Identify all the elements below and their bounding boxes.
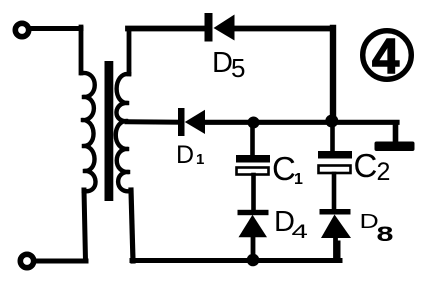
- wire secondary bottom: [131, 190, 133, 261]
- node junction dot on bottom rail: [247, 254, 260, 267]
- svg-text:C: C: [354, 147, 378, 184]
- svg-text:4: 4: [372, 30, 399, 84]
- svg-text:D: D: [176, 141, 194, 169]
- terminal J2 (bottom-left input): [20, 254, 33, 267]
- figure number circle 4: [363, 31, 412, 80]
- capacitor C2 top plate: [318, 151, 352, 159]
- wire middle rail right of D1: [205, 120, 397, 125]
- node junction dot at C2 tap: [325, 115, 338, 128]
- wire primary bottom: [84, 190, 86, 261]
- capacitor C1 bottom plate: [237, 168, 269, 175]
- wire right vertical from top rail: [330, 28, 336, 121]
- svg-text:2: 2: [377, 158, 391, 186]
- wire top rail right of D5: [233, 26, 333, 32]
- diode D4: [239, 215, 268, 238]
- diode D4 cathode bar: [238, 210, 269, 215]
- ground symbol: [375, 142, 415, 152]
- wire down to primary winding: [79, 27, 84, 73]
- wire D4 bottom lead: [251, 237, 256, 260]
- diode D1: [185, 110, 205, 134]
- terminal J1 (top-left input): [15, 23, 28, 36]
- wire middle rail tap to D1: [127, 119, 180, 124]
- wire C1 top lead: [250, 122, 255, 155]
- svg-text:1: 1: [294, 171, 303, 188]
- transformer T1 core: [105, 61, 114, 201]
- transformer T1 secondary winding: [116, 74, 131, 191]
- wire C1 to D4: [251, 175, 256, 210]
- label D8: [360, 210, 379, 233]
- wire secondary top stub: [127, 31, 132, 74]
- diode D1 cathode bar: [178, 108, 185, 136]
- svg-text:D: D: [212, 47, 233, 79]
- wire bottom rail end stub up to D8: [336, 243, 341, 260]
- capacitor C2 bottom plate: [319, 166, 351, 174]
- node junction dot at C1 tap: [248, 117, 260, 129]
- wire to terminal J2: [34, 259, 86, 264]
- svg-text:5: 5: [231, 53, 245, 83]
- capacitor C1 top plate: [236, 155, 270, 163]
- wire top rail left of D5: [128, 26, 205, 32]
- svg-text:1: 1: [196, 151, 204, 168]
- diode D8: [321, 215, 351, 239]
- wire bottom rail: [132, 258, 340, 263]
- wire ground branch: [393, 123, 399, 142]
- svg-text:8: 8: [377, 222, 394, 246]
- wire J1 to primary top: [30, 26, 81, 31]
- diode D5: [214, 15, 235, 41]
- transformer T1 primary winding: [81, 73, 96, 191]
- wire C2 to D8: [332, 174, 337, 209]
- diode D8 cathode bar: [320, 209, 351, 215]
- diode D5 cathode bar: [205, 13, 213, 42]
- svg-text:4: 4: [292, 222, 309, 243]
- wire C2 top lead: [330, 121, 335, 151]
- wire D8 bottom lead: [333, 237, 338, 259]
- svg-text:C: C: [272, 150, 296, 187]
